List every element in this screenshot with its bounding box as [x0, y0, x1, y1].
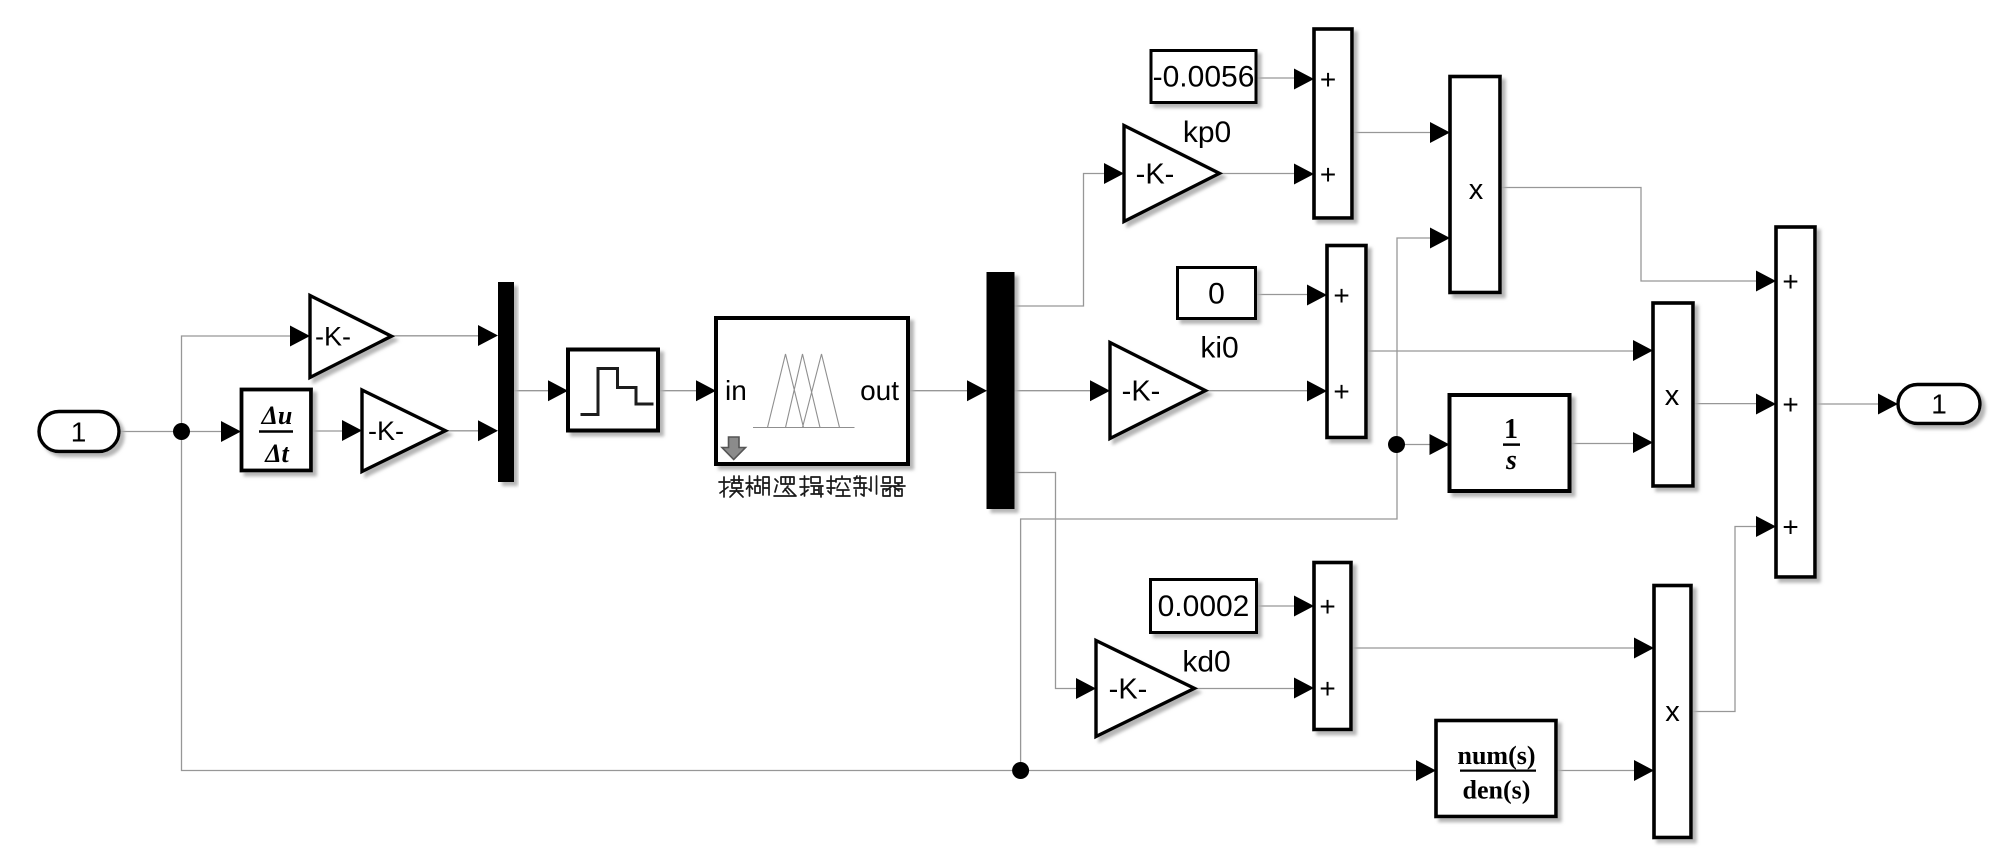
node B junction dot	[1012, 762, 1029, 779]
demux bar	[967, 272, 1015, 509]
svg-text:kp0: kp0	[1183, 116, 1231, 149]
svg-text:-K-: -K-	[315, 322, 351, 352]
gain block Gain (top -K-)	[290, 296, 392, 378]
input port In1	[39, 412, 119, 452]
sum block Add2 (kd)	[1294, 563, 1351, 730]
svg-text:-0.0056: -0.0056	[1153, 61, 1255, 94]
svg-text:+: +	[1782, 511, 1798, 542]
label: fuzzy logic controller chinese text	[719, 476, 905, 497]
gain block Gain1 (bottom -K-)	[342, 390, 446, 472]
wire Integrator to Product1 input 2	[1570, 443, 1636, 445]
wire du/dt to Gain1	[311, 430, 344, 432]
svg-text:ki0: ki0	[1200, 332, 1238, 365]
integrator block 1/s	[1430, 395, 1570, 491]
sum block Add (kp)	[1294, 29, 1352, 218]
svg-text:+: +	[1320, 159, 1336, 190]
constant block 0 with label ki0	[1178, 268, 1256, 365]
svg-text:x: x	[1665, 696, 1680, 728]
product block Product2 (x)	[1634, 586, 1691, 838]
wire Add1 to Product1 input 1	[1366, 350, 1635, 352]
svg-text:+: +	[1782, 389, 1798, 420]
constant block 0.0002 with label kd0	[1151, 580, 1257, 679]
svg-text:1: 1	[71, 417, 87, 448]
wire node B up to Product input 2 and branch	[1021, 238, 1432, 771]
svg-text:1: 1	[1931, 389, 1947, 420]
output port Out1	[1878, 385, 1980, 424]
wire Demux output 1 to Gain kp	[1014, 174, 1106, 307]
wire Constant kd0 to Add2	[1257, 605, 1297, 607]
svg-text:-K-: -K-	[1109, 674, 1148, 706]
wire Add to Product input 1	[1352, 132, 1432, 134]
wire Constant kp0 to Add	[1256, 77, 1296, 79]
wire node A up to Gain	[182, 336, 293, 432]
svg-text:+: +	[1333, 376, 1349, 407]
derivative block du/dt	[221, 390, 311, 471]
wire Product1 to Add3 input 2	[1693, 403, 1758, 405]
wire node C to Integrator	[1397, 444, 1432, 446]
wire Fuzzy Logic Controller to Demux	[908, 390, 969, 392]
wire Mux to Quantizer	[514, 390, 550, 392]
wire Product to Add3 input 1	[1500, 188, 1758, 282]
svg-text:num(s): num(s)	[1457, 741, 1535, 770]
wire Gain ki to Add1	[1206, 390, 1309, 392]
svg-text:+: +	[1319, 673, 1335, 704]
sum block Add3 (output sum)	[1756, 227, 1815, 577]
svg-text:kd0: kd0	[1182, 646, 1230, 679]
svg-text:-K-: -K-	[368, 416, 404, 446]
svg-text:+: +	[1333, 280, 1349, 311]
wire Add3 to Out1	[1815, 403, 1880, 405]
svg-text:0.0002: 0.0002	[1158, 590, 1250, 623]
wire Gain kp to Add	[1220, 173, 1296, 175]
svg-text:den(s): den(s)	[1463, 776, 1531, 805]
svg-text:Δu: Δu	[261, 401, 293, 430]
wire Constant ki0 to Add1	[1256, 294, 1310, 296]
wire node A down along bottom to Transfer Fcn	[182, 432, 1419, 771]
svg-text:+: +	[1782, 266, 1798, 297]
gain block kd (-K-)	[1076, 641, 1195, 737]
wire Gain kd to Add2	[1195, 688, 1296, 690]
svg-text:1: 1	[1504, 414, 1518, 445]
gain block kp (-K-) with label kp0	[1104, 116, 1231, 222]
wire Product2 to Add3 input 3	[1691, 527, 1758, 712]
wire Transfer Fcn to Product2 input 2	[1556, 770, 1636, 772]
product block Product (x)	[1430, 77, 1500, 293]
svg-text:s: s	[1505, 445, 1517, 476]
constant block -0.0056	[1151, 51, 1256, 103]
quantizer block	[548, 350, 658, 431]
gain block ki (-K-)	[1090, 343, 1206, 439]
svg-text:in: in	[725, 375, 747, 406]
svg-text:-K-: -K-	[1122, 376, 1161, 408]
svg-text:+: +	[1320, 64, 1336, 95]
svg-text:x: x	[1665, 380, 1680, 412]
svg-text:out: out	[860, 375, 899, 406]
svg-text:Δt: Δt	[264, 439, 289, 468]
svg-text:-K-: -K-	[1136, 159, 1175, 191]
node C junction dot	[1388, 436, 1405, 453]
svg-text:0: 0	[1208, 278, 1225, 311]
wire Demux output 3 to Gain kd	[1014, 473, 1078, 689]
node A junction dot	[173, 423, 190, 440]
wire Demux output 2 to Gain ki	[1014, 390, 1092, 392]
wire Add2 to Product2 input 1	[1351, 647, 1636, 649]
product block Product1 (x)	[1633, 303, 1693, 486]
wire In1 to node A to du/dt	[119, 431, 224, 433]
transfer function block num(s)/den(s)	[1416, 721, 1556, 817]
fuzzy logic controller block U1	[696, 318, 908, 464]
mux bar	[478, 282, 514, 482]
wire Quantizer to Fuzzy Logic Controller	[658, 390, 698, 392]
wire Gain1 to Mux input 2	[445, 430, 480, 432]
sum block Add1 (ki)	[1307, 246, 1366, 438]
wire Gain to Mux input 1	[391, 335, 480, 337]
svg-text:+: +	[1319, 591, 1335, 622]
svg-text:x: x	[1469, 174, 1484, 206]
